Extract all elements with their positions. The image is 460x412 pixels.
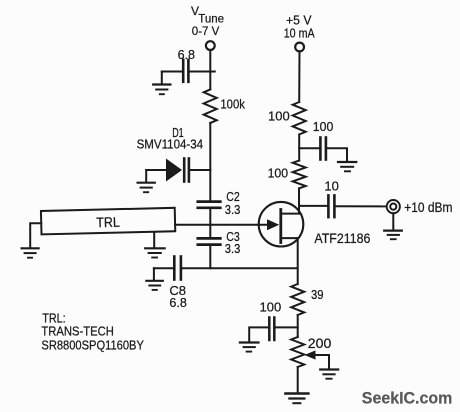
svg-text:SeekIC.com: SeekIC.com: [362, 388, 453, 407]
wire bottom bypass to ground: [249, 327, 268, 341]
varactor D1 label: [137, 126, 204, 152]
svg-text:+5 V: +5 V: [286, 13, 312, 27]
junction tick: [210, 71, 215, 73]
svg-text:100k: 100k: [220, 96, 245, 111]
wire cap left: [162, 71, 182, 73]
terminal VTune: [206, 41, 215, 50]
ground (top left cap): [153, 72, 170, 95]
terminal +5V: [295, 43, 304, 52]
wire 39 to pot: [297, 315, 299, 337]
node VTune label: [191, 4, 224, 38]
ground (pot wiper): [320, 370, 338, 379]
wire C3 down to bottom rail: [209, 246, 211, 268]
svg-text:100: 100: [268, 108, 290, 123]
svg-text:100: 100: [268, 166, 289, 181]
svg-text:TRANS-TECH: TRANS-TECH: [41, 324, 114, 339]
capacitor C3: [198, 238, 221, 244]
wire bypass branch bottom: [276, 326, 298, 328]
ground (C8 left): [146, 268, 162, 290]
wire pot to ground: [297, 367, 299, 393]
svg-text:6.8: 6.8: [178, 48, 195, 62]
wire cap right: [190, 71, 211, 73]
svg-text:SMV1104-34: SMV1104-34: [137, 136, 204, 151]
resistor 100 (second): [293, 161, 306, 189]
ground (bypass top): [338, 162, 356, 171]
ground (TRL bottom): [145, 232, 164, 258]
wire C8 left: [154, 267, 173, 269]
svg-text:0-7 V: 0-7 V: [192, 24, 220, 38]
TRL box: [41, 208, 175, 235]
svg-text:39: 39: [311, 287, 324, 302]
ground (TRL left): [22, 248, 39, 257]
wire cathode to node: [190, 169, 210, 171]
varactor D1: [166, 159, 189, 182]
svg-text:100: 100: [260, 299, 282, 314]
svg-text:3.3: 3.3: [225, 242, 241, 256]
note TRL part number: [41, 310, 144, 352]
svg-text:+10 dBm: +10 dBm: [404, 199, 452, 215]
wire VTune down: [209, 50, 211, 89]
svg-text:200: 200: [308, 335, 332, 351]
svg-text:100: 100: [313, 119, 334, 134]
svg-text:C2: C2: [226, 190, 240, 204]
transistor Q1 ATF21186: [259, 202, 304, 247]
wire gate rail (TRL to transistor): [175, 224, 270, 226]
svg-text:6.8: 6.8: [169, 296, 186, 310]
wire output: [299, 205, 327, 207]
wire to connector: [336, 205, 387, 207]
capacitor 100 (bottom bypass): [269, 318, 274, 341]
wire C2 to gate node: [209, 209, 211, 237]
capacitor C8: [174, 257, 181, 280]
capacitor 100 (bypass top): [320, 138, 326, 160]
svg-text:SR8800SPQ1160BY: SR8800SPQ1160BY: [41, 338, 144, 353]
wire anode: [146, 169, 166, 171]
capacitor C2: [198, 202, 221, 208]
svg-text:3.3: 3.3: [225, 203, 241, 217]
capacitor 10: [328, 195, 334, 217]
wire bypass branch: [299, 147, 319, 149]
svg-text:TRL: TRL: [96, 214, 120, 231]
ground (D1 anode): [138, 170, 155, 192]
resistor 39: [291, 284, 304, 315]
potentiometer 200: [291, 337, 329, 369]
ground (connector): [384, 213, 402, 239]
wire between 100 resistors: [298, 135, 300, 161]
resistor 100 (top): [293, 102, 306, 135]
wire TRL left: [30, 223, 41, 247]
svg-text:10 mA: 10 mA: [284, 26, 316, 40]
wire drain vertical: [298, 188, 300, 213]
ground (source bottom): [285, 394, 308, 404]
wire bottom rail (C8 to source line): [182, 267, 298, 269]
capacitor 6.8 (top left): [183, 60, 188, 82]
wire +5V down: [298, 51, 300, 102]
svg-text:10: 10: [324, 179, 338, 194]
wire source vertical: [297, 238, 299, 284]
connector J1 output: [387, 200, 400, 213]
node +5V label: [284, 13, 316, 40]
svg-text:ATF21186: ATF21186: [314, 231, 370, 246]
ground (bottom bypass): [240, 343, 259, 352]
wire 100k to diode node and C2: [209, 123, 211, 201]
wire bypass to ground: [327, 148, 347, 161]
resistor 100k: [204, 90, 217, 124]
